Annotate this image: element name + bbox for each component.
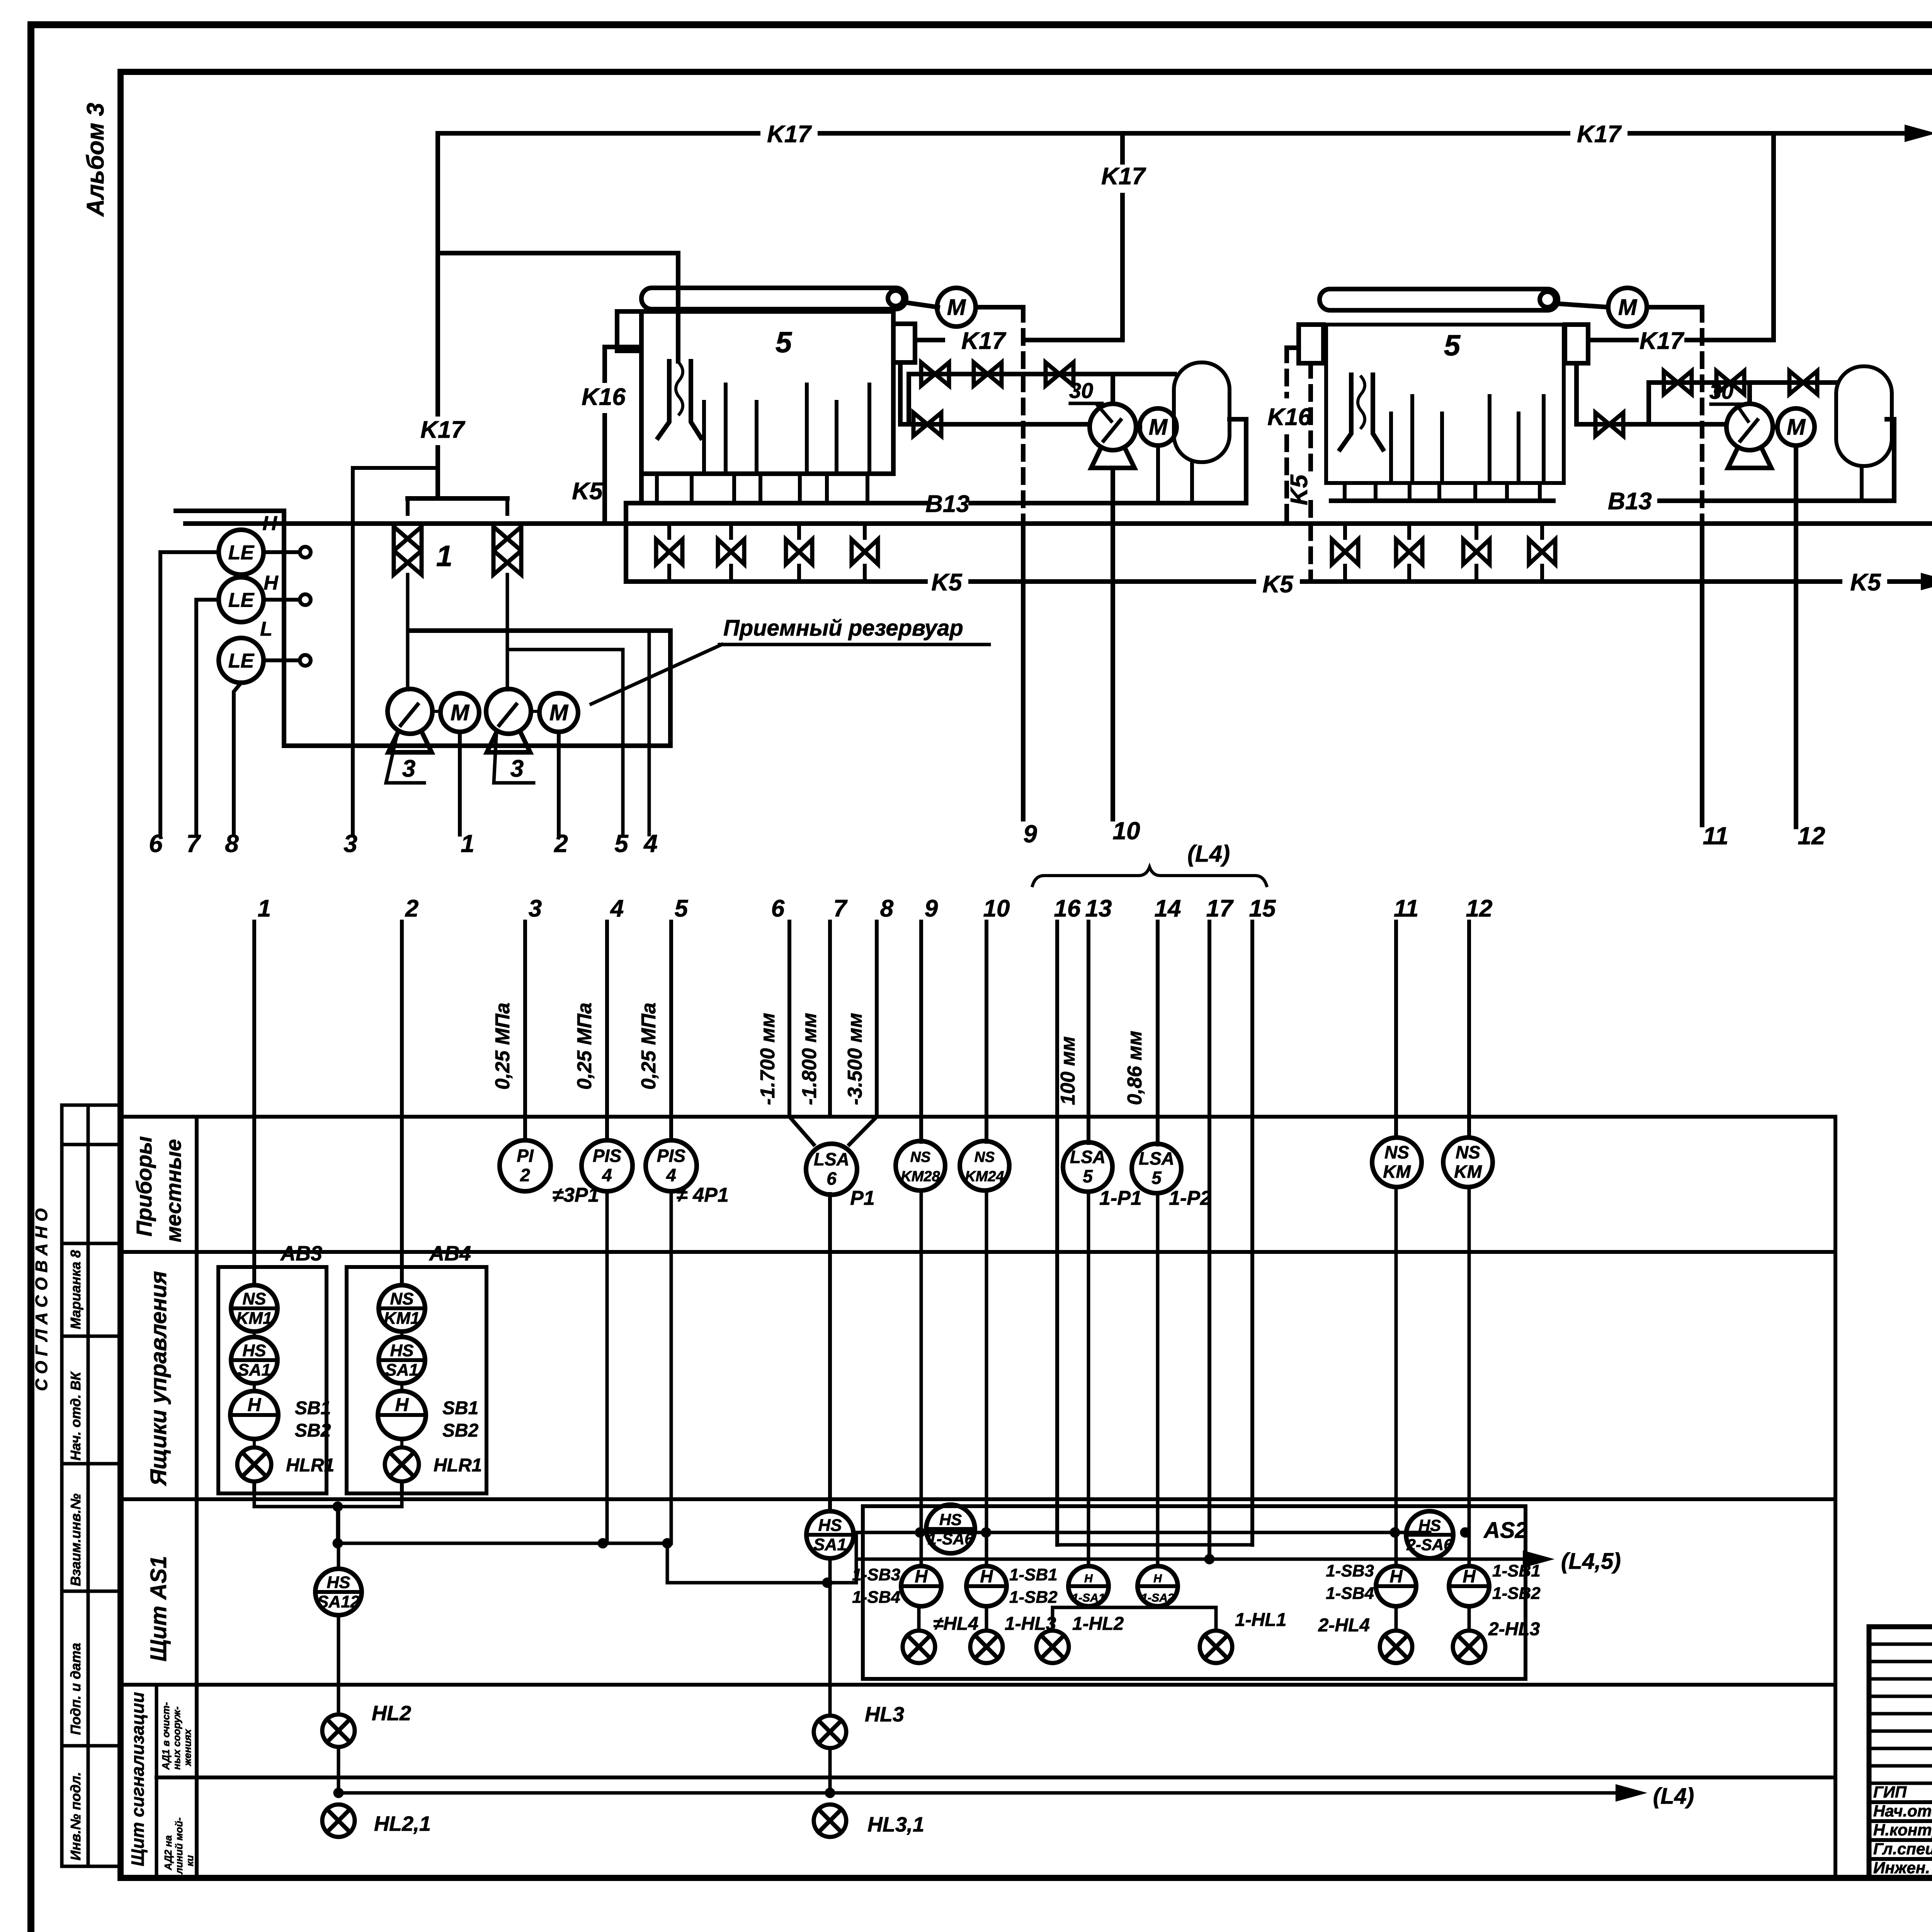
svg-text:PI: PI	[517, 1146, 534, 1166]
svg-text:16: 16	[1054, 895, 1081, 922]
wire line 12	[1467, 922, 1471, 1138]
switch HS-SA12	[315, 1569, 362, 1615]
svg-text:LE: LE	[228, 650, 255, 672]
title name row 4664	[1869, 1800, 1932, 1804]
svg-text:NS: NS	[242, 1289, 266, 1308]
wire line 16	[1055, 922, 1059, 1117]
svg-text:HLR1: HLR1	[434, 1455, 482, 1476]
lamp HL3.1	[814, 1804, 846, 1837]
wire drain collector unit2	[1331, 498, 1553, 503]
lamp 1-HL1	[1200, 1631, 1232, 1663]
svg-text:K17: K17	[420, 417, 465, 443]
aeration pipe unit2-6	[1542, 396, 1546, 479]
wire K5 rail arrow seg	[1889, 579, 1928, 584]
svg-text:3: 3	[510, 755, 524, 782]
wire K5 dashed upper unit2	[1308, 363, 1313, 473]
valve stem lower unit1-2	[729, 566, 733, 582]
junction HL3.1	[825, 1788, 835, 1798]
LE output wire	[264, 658, 299, 662]
wire K16 upper unit1	[602, 347, 607, 381]
lamp HLR1 AB4	[385, 1447, 419, 1481]
control box AB4	[347, 1267, 486, 1493]
svg-text:AB4: AB4	[429, 1242, 471, 1265]
capsule side pipe unit2	[1887, 419, 1894, 501]
svg-text:2-HL3: 2-HL3	[1488, 1619, 1540, 1639]
svg-text:K17: K17	[1639, 328, 1684, 354]
wire line 1	[252, 922, 256, 1117]
svg-text:2-HL4: 2-HL4	[1318, 1615, 1370, 1636]
svg-text:6: 6	[771, 895, 785, 922]
svg-text:NS: NS	[1456, 1142, 1480, 1162]
pump 30 unit1	[1090, 404, 1136, 468]
LE terminal	[300, 547, 311, 558]
LE output wire	[264, 550, 299, 554]
wire HL3 down	[828, 1748, 832, 1793]
starter NS-KM no2	[1443, 1138, 1493, 1187]
wire K16 lower unit1	[602, 415, 607, 524]
svg-text:1-SB2: 1-SB2	[1009, 1588, 1058, 1607]
wire line 14	[1156, 922, 1160, 1145]
wire line13 down	[1087, 1192, 1090, 1566]
gauge PIS-4 no1	[582, 1140, 633, 1191]
svg-text:10: 10	[1112, 817, 1140, 845]
inlet squiggle unit2	[1358, 377, 1365, 428]
wire 3	[353, 468, 438, 835]
lamp HL2.1	[322, 1804, 355, 1837]
funnel right to LSA6	[849, 1117, 877, 1145]
switch HS-SA1 AB4	[379, 1337, 425, 1383]
svg-text:PIS: PIS	[657, 1146, 685, 1166]
arrow K5 to L4	[1922, 574, 1932, 588]
valve bypass3 unit1	[1046, 362, 1073, 386]
wire K17 riser1 upper	[435, 133, 440, 414]
wire 11 dashed	[1700, 307, 1704, 524]
svg-text:ки: ки	[184, 1855, 196, 1866]
svg-text:6: 6	[149, 830, 163, 857]
valve stem upper unit2-1	[1343, 524, 1347, 538]
receiving tank top	[411, 628, 670, 633]
wire bypass left elbow unit1	[906, 374, 911, 424]
valve stem upper unit1-2	[729, 524, 733, 538]
svg-text:HLR1: HLR1	[286, 1455, 334, 1476]
svg-text:8: 8	[225, 830, 239, 857]
wire line 9	[919, 922, 923, 1142]
title thin row 6	[1869, 1730, 1932, 1733]
svg-text:M: M	[549, 700, 569, 725]
level sensor LE3	[219, 638, 264, 683]
svg-text:-3.500 мм: -3.500 мм	[844, 1013, 866, 1105]
drain stub unit2-6	[1505, 483, 1509, 501]
approval strip left line	[60, 1105, 64, 1866]
valve stem upper unit2-2	[1407, 524, 1411, 538]
wire H to lamp 1-HL3	[985, 1606, 988, 1631]
gauge PI-2	[500, 1140, 551, 1191]
wire 2	[557, 732, 561, 835]
wire 6	[160, 552, 219, 835]
brace (L4)	[1032, 867, 1267, 886]
wire line12 down	[1468, 1187, 1471, 1566]
row line boxes/AS1	[121, 1497, 1835, 1501]
svg-text:SA1: SA1	[385, 1361, 418, 1379]
svg-text:1-SB3: 1-SB3	[852, 1565, 900, 1584]
svg-text:HS: HS	[390, 1341, 413, 1360]
wire line 5	[669, 922, 673, 1141]
skimmer end roller unit2	[1540, 292, 1555, 307]
approval strip divider y4118	[62, 1590, 121, 1593]
wire 10	[1111, 468, 1115, 819]
junction AB join	[333, 1502, 343, 1512]
table top line	[121, 1115, 1835, 1119]
valve bypass1 unit2	[1664, 371, 1692, 394]
motor M skimmer unit1	[937, 288, 976, 327]
aeration pipe unit2-5	[1517, 413, 1520, 479]
wire feed drop into funnel	[676, 253, 680, 361]
svg-text:HL3,1: HL3,1	[867, 1813, 924, 1836]
svg-text:9: 9	[925, 895, 938, 922]
svg-text:3: 3	[344, 830, 357, 857]
svg-text:С О Г Л А С О В А Н О: С О Г Л А С О В А Н О	[32, 1208, 51, 1391]
wire line17 down	[1207, 1117, 1211, 1559]
svg-text:H: H	[980, 1566, 993, 1586]
wire SA12 top	[337, 1507, 340, 1569]
wire bus1	[338, 1542, 667, 1545]
svg-text:местные: местные	[161, 1139, 185, 1242]
wire AB join drop	[336, 1507, 340, 1543]
wire HL2 down	[337, 1747, 340, 1793]
svg-text:K5: K5	[1262, 571, 1294, 598]
svg-text:0,86 мм: 0,86 мм	[1124, 1031, 1146, 1105]
wire line 10	[985, 922, 988, 1142]
svg-text:1-SB1: 1-SB1	[1009, 1565, 1058, 1584]
svg-text:LE: LE	[228, 589, 255, 612]
valve bypass3 unit2	[1789, 371, 1817, 394]
wire H to lamp HL4	[917, 1606, 921, 1631]
aeration pipe unit1-5	[835, 402, 838, 469]
motor M pump unit1	[1139, 408, 1177, 446]
aeration pipe unit1-3	[755, 402, 759, 469]
svg-text:Щит AS1: Щит AS1	[146, 1556, 171, 1662]
wire motor1 out	[976, 305, 1023, 310]
wire to lamp 1-HL2	[1051, 1607, 1054, 1631]
wire 9	[1021, 524, 1026, 819]
svg-text:L: L	[260, 618, 272, 640]
svg-text:H: H	[915, 1566, 928, 1586]
valve stem right	[505, 498, 509, 514]
valve stem lower unit2-3	[1475, 566, 1478, 582]
svg-text:NS: NS	[390, 1289, 413, 1308]
svg-text:4: 4	[602, 1165, 612, 1185]
junction bus1 line4	[598, 1538, 608, 1548]
svg-text:2-SA6: 2-SA6	[1406, 1536, 1453, 1554]
wire lamp to box bottom AB3	[252, 1481, 256, 1493]
row line instruments/boxes	[121, 1250, 1835, 1254]
aeration pipe unit1-6	[867, 384, 871, 469]
svg-text:5: 5	[1444, 329, 1461, 362]
svg-text:Альбом 3: Альбом 3	[82, 103, 109, 217]
wire line 8	[875, 922, 879, 1117]
svg-text:Инв.№ подл.: Инв.№ подл.	[68, 1772, 83, 1861]
svg-text:3: 3	[529, 895, 542, 922]
label 30 leader unit1	[1097, 404, 1111, 421]
wire line 7	[828, 922, 832, 1117]
svg-text:4: 4	[610, 895, 624, 922]
wire H to lamp 2-HL4	[1395, 1606, 1398, 1631]
wire AB boxes join	[254, 1493, 402, 1507]
receiving reservoir underline	[719, 643, 989, 646]
valve stem lower unit2-2	[1407, 566, 1411, 582]
receiving tank bottom	[284, 743, 670, 748]
label 30 underline unit1	[1070, 402, 1102, 405]
receiving tank right	[668, 631, 673, 746]
svg-text:HL2,1: HL2,1	[374, 1812, 431, 1835]
button H 3 panel	[1376, 1566, 1416, 1606]
svg-text:H: H	[395, 1395, 409, 1415]
title thin row 8	[1869, 1764, 1932, 1768]
wire 7	[196, 600, 219, 835]
svg-text:NS: NS	[910, 1149, 931, 1165]
wire 12	[1794, 446, 1798, 827]
LE box right	[282, 511, 286, 746]
valve stem left	[406, 498, 410, 514]
button H AB4	[378, 1391, 426, 1439]
wire lamp to box bottom AB4	[400, 1481, 404, 1493]
wire pump discharge unit1	[1111, 374, 1115, 404]
svg-text:M: M	[1618, 295, 1638, 320]
svg-text:HS: HS	[939, 1510, 962, 1529]
double valve left item1	[394, 527, 422, 575]
svg-text:АД2 на: АД2 на	[162, 1835, 174, 1871]
title name row 4713	[1869, 1819, 1932, 1823]
pump 30 unit2	[1726, 404, 1773, 468]
inner frame bottom line	[121, 1875, 1932, 1881]
skimmer conveyor unit2	[1320, 289, 1558, 310]
svg-text:Приборы: Приборы	[132, 1136, 156, 1236]
svg-text:100 мм: 100 мм	[1057, 1036, 1079, 1105]
wire K17 riser2 lower	[1120, 195, 1125, 340]
svg-text:B13: B13	[1608, 488, 1652, 515]
title name row 4762	[1869, 1838, 1932, 1842]
svg-text:HS: HS	[1418, 1516, 1441, 1534]
wire K5 leg unit1	[624, 503, 628, 582]
svg-text:13: 13	[1085, 895, 1112, 922]
valve stem upper unit1-4	[863, 524, 867, 538]
wire skimmer to motor unit1	[906, 303, 938, 307]
wire 11	[1700, 524, 1704, 825]
svg-text:5: 5	[1083, 1166, 1093, 1186]
svg-text:P1: P1	[850, 1187, 875, 1209]
svg-text:15: 15	[1249, 895, 1276, 922]
svg-text:Щит сигнализации: Щит сигнализации	[128, 1692, 148, 1866]
wire 4	[648, 631, 651, 835]
svg-text:0,25 МПа: 0,25 МПа	[573, 1003, 596, 1090]
svg-text:SB1: SB1	[295, 1398, 331, 1418]
wire suction vertical unit2	[1574, 363, 1579, 424]
wire 9 dashed	[1021, 307, 1026, 524]
lamp 2-HL4	[1380, 1631, 1412, 1663]
svg-text:6: 6	[827, 1168, 837, 1189]
drain stub unit2-4	[1437, 483, 1441, 501]
arrow L4-5	[1524, 1552, 1550, 1566]
approval strip divider y4518	[62, 1744, 121, 1748]
wire K5 dashed lower unit2	[1308, 502, 1313, 582]
label 30 underline unit2	[1711, 403, 1742, 406]
svg-text:Ящики управления: Ящики управления	[146, 1271, 171, 1486]
drain stub unit1-3	[732, 474, 736, 503]
svg-text:1-SB4: 1-SB4	[852, 1588, 900, 1607]
tank left support unit2	[1299, 325, 1323, 363]
motor M pump right recv	[539, 693, 578, 732]
wire line4 down	[605, 1192, 609, 1543]
switch HS-1-SA6	[926, 1505, 975, 1553]
button H 1 panel	[901, 1566, 941, 1606]
capsule bottom stub unit2	[1860, 466, 1864, 501]
wire bus HS row	[854, 1531, 1430, 1534]
svg-text:K5: K5	[1850, 569, 1881, 596]
button H 4 panel	[1449, 1566, 1489, 1606]
title thin row 5	[1869, 1712, 1932, 1716]
svg-text:1: 1	[436, 540, 452, 573]
svg-text:Взаим.инв.№: Взаим.инв.№	[68, 1493, 83, 1586]
wire K17 unit2 horizontal	[1687, 338, 1774, 342]
svg-text:2: 2	[520, 1165, 530, 1185]
svg-text:H: H	[1389, 1566, 1403, 1586]
wire line 15	[1250, 922, 1254, 1117]
inlet funnel left unit2	[1340, 375, 1351, 449]
lamp 1HL4	[903, 1631, 935, 1663]
svg-text:KM28: KM28	[901, 1168, 940, 1185]
approval strip divider y2962	[62, 1143, 121, 1146]
svg-text:1-SA6: 1-SA6	[927, 1530, 974, 1548]
valve K5 unit1-1	[656, 539, 682, 564]
svg-text:Н.контр.: Н.контр.	[1873, 1821, 1932, 1839]
wire line16-15 elbow	[1057, 1543, 1252, 1547]
svg-text:≠ 4P1: ≠ 4P1	[676, 1184, 729, 1206]
junction bus1 line5	[662, 1538, 672, 1548]
svg-text:H: H	[1153, 1572, 1162, 1585]
approval strip divider y3458	[62, 1335, 121, 1338]
svg-text:11: 11	[1703, 822, 1728, 850]
LE output wire	[264, 598, 299, 602]
wire SA1-SA2 link	[1053, 1606, 1216, 1609]
wire K5 rail seg2	[971, 579, 1254, 584]
drain stub unit1-6	[825, 474, 829, 503]
drain stub unit1-5	[798, 474, 802, 503]
drain stub unit1-4	[759, 474, 762, 503]
aeration pipe unit1-1	[702, 402, 706, 469]
svg-text:(L4): (L4)	[1187, 841, 1230, 867]
svg-text:5: 5	[1151, 1168, 1162, 1188]
starter NS-KM28	[896, 1141, 945, 1190]
motor M pump left recv	[440, 693, 479, 732]
label 30 leader unit2	[1737, 405, 1748, 421]
wire signal to L4	[338, 1791, 1630, 1795]
inlet squiggle unit1	[676, 363, 683, 414]
arrow to L4	[1906, 126, 1932, 140]
title thin row 7	[1869, 1747, 1932, 1750]
wire 8	[234, 683, 241, 835]
wire B13 unit1	[971, 501, 1246, 505]
inner frame left line	[117, 72, 124, 1878]
svg-text:K17: K17	[1577, 121, 1622, 148]
valve K5 unit1-2	[718, 539, 744, 564]
svg-text:7: 7	[186, 830, 201, 857]
svg-text:LE: LE	[228, 542, 255, 564]
control box AB3	[218, 1267, 327, 1493]
gauge PIS-4 no2	[646, 1140, 697, 1191]
wire K17 unit1 horizontal	[1024, 338, 1122, 342]
svg-text:1-SA2: 1-SA2	[1141, 1592, 1174, 1604]
approval strip divider y4830	[62, 1865, 121, 1868]
valve bypass1 unit1	[921, 362, 949, 386]
starter NS-KM1 AB4	[379, 1285, 425, 1332]
wire pump-motor unit2	[1773, 425, 1777, 429]
svg-text:4: 4	[643, 830, 658, 857]
title thin row 1	[1869, 1643, 1932, 1646]
valve suction unit2	[1595, 413, 1623, 436]
wire K17 riser2 upper	[1120, 133, 1125, 162]
wire bypass left elbow unit2	[1646, 383, 1651, 424]
button H AB3	[230, 1391, 278, 1439]
svg-text:LSA: LSA	[814, 1149, 849, 1169]
svg-text:H: H	[264, 572, 279, 594]
aeration pipe unit2-2	[1410, 396, 1414, 479]
inlet funnel right unit1	[691, 361, 701, 438]
lamp 1-HL3	[970, 1631, 1003, 1663]
wire motor2 out	[1647, 305, 1702, 310]
title block outline	[1869, 1627, 1932, 1878]
capsule side pipe unit1	[1230, 419, 1246, 503]
level sensor LE1	[219, 530, 264, 575]
wire line 17	[1207, 922, 1211, 1117]
valve suction unit1	[913, 413, 941, 436]
svg-text:K17: K17	[1101, 163, 1146, 190]
svg-text:Марианка 8: Марианка 8	[68, 1250, 83, 1329]
header column line	[195, 1117, 199, 1878]
pump item3 left	[388, 689, 432, 752]
svg-text:1-SB3: 1-SB3	[1326, 1561, 1374, 1580]
svg-text:KM24: KM24	[965, 1168, 1004, 1185]
valve stem upper unit1-3	[797, 524, 801, 538]
svg-text:5: 5	[776, 326, 793, 359]
wire bus1 step down	[666, 1543, 669, 1583]
svg-text:жениях: жениях	[182, 1728, 193, 1767]
signal sub column	[155, 1685, 158, 1878]
skimmer end roller unit1	[888, 291, 903, 306]
wire K5 rail seg1	[626, 579, 925, 584]
wire K5 rail seg3	[1302, 579, 1840, 584]
wire K16 dashed lower unit2	[1284, 437, 1289, 520]
skimmer conveyor unit1	[641, 288, 906, 309]
inlet funnel left unit1	[658, 361, 669, 438]
lamp HL2	[322, 1714, 355, 1747]
svg-text:AB3: AB3	[280, 1242, 322, 1265]
wire suction vertical unit1	[898, 362, 903, 424]
wire line9 down	[920, 1190, 923, 1566]
svg-text:H: H	[1084, 1572, 1093, 1585]
receiving reservoir leader	[591, 645, 722, 704]
wire main horizontal line	[185, 521, 1932, 526]
wire bus1 step right	[667, 1581, 856, 1585]
capsule bottom stub unit1	[1190, 462, 1194, 503]
wire K17 riser3	[1771, 133, 1776, 340]
wire into AB4	[400, 1117, 404, 1285]
junction line11 bus	[1390, 1527, 1400, 1537]
wire 5	[507, 650, 623, 835]
svg-text:17: 17	[1206, 895, 1234, 922]
wire line10 down	[985, 1190, 988, 1566]
starter NS-KM1 AB3	[231, 1285, 277, 1332]
wire K17 unit2 stub	[1588, 338, 1636, 342]
